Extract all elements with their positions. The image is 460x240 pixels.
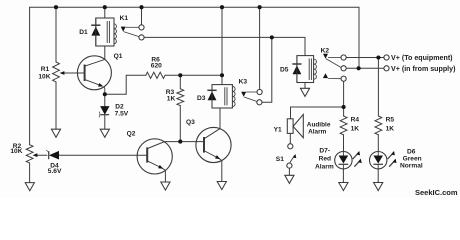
svg-text:K1: K1 xyxy=(120,15,129,22)
wire R4 to D7 xyxy=(343,135,345,152)
relay K2 armature arrow upper xyxy=(323,54,341,68)
wire Y1 to S1 xyxy=(289,133,291,143)
junction node Q1 emitter xyxy=(103,92,107,96)
wire R5 to D8 xyxy=(377,135,379,152)
wire R3 top xyxy=(179,75,181,89)
junction node K1-K3 contact wire xyxy=(270,35,274,39)
svg-text:10K: 10K xyxy=(10,148,22,155)
relay K2 box xyxy=(297,56,314,83)
wire R1 bottom xyxy=(55,82,57,129)
resistor R6 xyxy=(146,72,165,78)
transistor Q2 xyxy=(137,139,172,174)
svg-text:D2: D2 xyxy=(115,103,124,110)
svg-text:1K: 1K xyxy=(351,126,360,133)
contact circle K3 upper xyxy=(257,89,262,94)
terminal circle V+ equipment xyxy=(384,55,389,60)
svg-text:Normal: Normal xyxy=(400,162,423,169)
wire Y1 top xyxy=(290,107,292,119)
wire K3 NO contact to K1 wire xyxy=(262,37,272,102)
junction node K3 coil feed xyxy=(220,73,224,77)
svg-text:K2: K2 xyxy=(321,48,330,55)
transistor Q1 xyxy=(77,56,111,95)
wire K1 top to rail xyxy=(104,7,106,18)
wire top rail xyxy=(30,6,359,8)
resistor R2 xyxy=(26,145,33,163)
wire R4 top xyxy=(343,107,345,116)
svg-text:Alarm: Alarm xyxy=(308,129,327,136)
wire K1 bottom to Q1 collector xyxy=(104,46,106,59)
relay K2 core xyxy=(309,58,311,80)
ground under S1 xyxy=(285,175,294,183)
junction node rail-K3 xyxy=(220,5,224,9)
wire K2 coil bottom to ground xyxy=(304,83,306,89)
svg-text:7.5V: 7.5V xyxy=(115,110,129,117)
svg-text:D3: D3 xyxy=(197,95,206,102)
svg-text:K3: K3 xyxy=(239,78,248,85)
wire D4 to Q2 base xyxy=(59,154,148,156)
relay K3 coil xyxy=(233,87,236,107)
wire R2 wiper to D4 xyxy=(37,154,48,156)
wire R6 to K3 node xyxy=(165,74,222,76)
svg-text:1K: 1K xyxy=(167,95,176,102)
svg-text:Y1: Y1 xyxy=(274,126,282,133)
svg-text:R1: R1 xyxy=(41,66,50,73)
svg-text:Q2: Q2 xyxy=(127,131,136,138)
relay K1 core xyxy=(107,21,109,43)
junction node rail-K1 contact xyxy=(139,5,143,9)
resistor R4 xyxy=(340,116,347,135)
svg-text:D1: D1 xyxy=(79,29,88,36)
wire Q2 emitter to ground xyxy=(163,168,166,182)
junction node R3 top xyxy=(178,73,182,77)
svg-text:D5: D5 xyxy=(280,66,289,73)
junction node Q2-Q3 xyxy=(178,140,182,144)
wire D2 anode xyxy=(104,94,106,106)
junction node equipment-R5 xyxy=(376,55,380,59)
resistor R1 xyxy=(53,62,60,82)
junction node rail-K1 xyxy=(103,5,107,9)
diode D5 xyxy=(292,56,301,83)
svg-text:Audible: Audible xyxy=(307,121,331,128)
ground under Q2 xyxy=(161,182,170,190)
contact circle K3 lower xyxy=(257,100,262,105)
wire Q3 collector to K3 coil xyxy=(204,108,220,139)
svg-text:SeekIC.com: SeekIC.com xyxy=(415,188,458,197)
zener diode D4 xyxy=(46,150,59,159)
ground under R2 xyxy=(25,183,34,191)
junction node rail-K3 contact xyxy=(258,5,262,9)
junction node supply xyxy=(357,66,361,70)
relay K1 armature arrow xyxy=(121,27,139,37)
wire alarm bus xyxy=(291,106,344,108)
zener diode D2 xyxy=(99,106,110,117)
ground under D2 xyxy=(100,129,109,137)
wire D2 cathode to ground xyxy=(104,115,106,129)
contact circle K2 aux xyxy=(341,76,346,81)
svg-text:Red: Red xyxy=(319,155,331,162)
ground under K2 xyxy=(300,88,309,96)
wire supply rail drop xyxy=(358,7,360,68)
wire S1 to ground xyxy=(288,168,290,175)
diode D1 xyxy=(91,18,100,46)
resistor R3 xyxy=(177,89,184,106)
svg-text:R4: R4 xyxy=(351,117,360,124)
contact circle K1 lower xyxy=(139,35,144,40)
diode D3 xyxy=(207,85,216,108)
contact circle K1 upper xyxy=(139,25,144,30)
ground under Q3 xyxy=(217,182,226,190)
wire R1 top feed xyxy=(55,7,57,62)
relay K2 coil xyxy=(314,59,317,79)
svg-text:R5: R5 xyxy=(386,117,395,124)
svg-text:5.6V: 5.6V xyxy=(48,168,62,175)
wire D7 cathode to ground xyxy=(342,169,344,183)
svg-text:D7-: D7- xyxy=(319,148,330,155)
wire left rail xyxy=(29,7,31,145)
wire Q1 emitter node to R6 xyxy=(105,75,146,94)
transistor Q3 xyxy=(196,127,231,162)
svg-text:Q1: Q1 xyxy=(114,53,123,60)
speaker Y1 xyxy=(287,114,303,137)
wire R5 top from V+ node xyxy=(377,58,379,117)
wire Q2 collector to Q3 base xyxy=(147,142,204,149)
wire V+ to equipment line xyxy=(346,57,384,59)
wire R2 bottom to ground xyxy=(29,163,31,183)
wire D8 cathode to ground xyxy=(377,169,379,183)
relay K1 box xyxy=(96,18,114,46)
svg-text:10K: 10K xyxy=(38,74,50,81)
ground under D8 xyxy=(374,183,383,191)
ground under D7 xyxy=(339,183,348,191)
wire R3 bottom to Q2-Q3 node xyxy=(179,106,181,142)
relay K3 box xyxy=(212,85,232,108)
LED D7 xyxy=(335,151,364,169)
svg-text:620: 620 xyxy=(151,63,162,70)
wire K1 NO contact to K2 coil xyxy=(144,37,305,55)
resistor R5 xyxy=(375,116,382,135)
switch S1 xyxy=(287,144,298,169)
relay K1 coil xyxy=(114,24,117,44)
LED D8 xyxy=(370,151,399,169)
wire K3 NC contact to rail xyxy=(259,7,261,89)
potentiometer R1 wiper arrow xyxy=(60,71,65,75)
relay K3 armature arrow xyxy=(241,92,257,102)
wire K1 NC contact to rail xyxy=(141,7,143,25)
svg-text:Alarm: Alarm xyxy=(315,164,334,171)
relay K3 core xyxy=(225,87,227,105)
contact circle K2 middle xyxy=(341,66,346,71)
wire K2 aux contact to alarm bus xyxy=(343,81,345,107)
wire V+ in from supply line xyxy=(346,67,384,69)
svg-text:D6: D6 xyxy=(407,148,416,155)
relay K2 armature arrow lower xyxy=(323,73,341,78)
wire K3 feed from rail xyxy=(221,7,223,84)
ground under R1 xyxy=(51,129,60,137)
svg-text:Q3: Q3 xyxy=(186,119,195,126)
terminal circle V+ supply xyxy=(384,66,389,71)
contact circle K2 top xyxy=(341,55,346,60)
svg-text:S1: S1 xyxy=(276,156,284,163)
svg-text:1K: 1K xyxy=(386,126,395,133)
svg-text:V+ (To equipment): V+ (To equipment) xyxy=(391,54,453,62)
junction node alarm bus xyxy=(342,105,346,109)
potentiometer R2 wiper arrow xyxy=(33,153,38,157)
wire Q3 emitter to ground xyxy=(220,159,222,182)
svg-text:V+ (in from supply): V+ (in from supply) xyxy=(391,65,456,73)
wire R1 wiper to Q1 base xyxy=(63,72,85,74)
junction node rail-R1 xyxy=(54,5,58,9)
